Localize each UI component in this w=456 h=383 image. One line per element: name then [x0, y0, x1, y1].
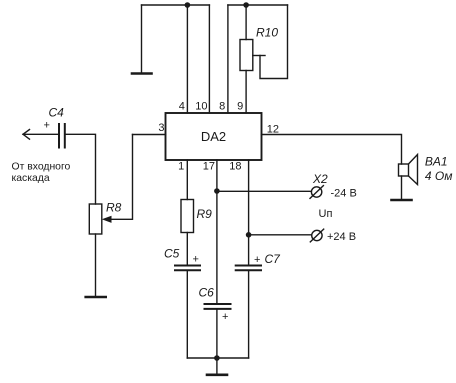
ground GND1	[132, 72, 152, 75]
wire bottom ground stub	[216, 358, 218, 375]
wire R10 top lead	[245, 5, 247, 40]
wire R10 bottom lead to pin 9	[245, 71, 247, 114]
capacitor C6 plates	[205, 303, 231, 305]
svg-text:-24 В: -24 В	[331, 188, 357, 200]
svg-text:C6: C6	[199, 286, 215, 300]
wire top bus 2 horizontal	[228, 4, 288, 6]
svg-text:4: 4	[179, 101, 185, 113]
svg-text:R8: R8	[106, 201, 122, 215]
wire R10 tap	[253, 55, 265, 57]
wire pin 1 lead	[186, 160, 188, 200]
speaker BA1 horn	[409, 155, 418, 185]
svg-text:4 Ом: 4 Ом	[425, 169, 453, 183]
resistor R9	[181, 200, 194, 233]
svg-text:+: +	[193, 254, 199, 266]
capacitor C4 input arrow	[23, 130, 30, 140]
capacitor C4 plates	[58, 124, 60, 148]
wire pin 4 vertical	[186, 5, 188, 113]
wire input to C4	[23, 133, 58, 135]
svg-text:каскада: каскада	[12, 173, 50, 184]
svg-text:10: 10	[195, 101, 207, 113]
node junction pin17 / -24V	[214, 188, 220, 194]
svg-text:1: 1	[178, 161, 184, 173]
capacitor C7 plates	[236, 265, 261, 267]
svg-text:C5: C5	[164, 247, 180, 261]
wire to X2 -24V terminal	[217, 190, 312, 192]
wire C7 to bottom bus	[248, 271, 250, 358]
wire to +24V terminal	[249, 234, 312, 236]
svg-text:DA2: DA2	[201, 129, 226, 144]
svg-text:17: 17	[203, 161, 215, 173]
ground GND3	[392, 199, 412, 202]
terminal X2 -24V circle	[311, 187, 321, 197]
svg-text:8: 8	[219, 101, 225, 113]
wire C4 to R8 top	[66, 134, 96, 204]
terminal X2 -24V slash	[310, 186, 323, 199]
wire pin 10 vertical	[208, 5, 210, 113]
wire pin 12 to speaker	[262, 135, 402, 165]
wire top bus 1 horizontal	[142, 4, 210, 6]
svg-text:18: 18	[229, 161, 241, 173]
svg-text:+: +	[222, 311, 228, 323]
wire C6 to bottom bus	[216, 310, 218, 359]
speaker BA1 box	[399, 164, 409, 176]
ground GND4	[207, 373, 227, 376]
wiper arrowhead R8	[102, 216, 112, 223]
wire speaker to ground	[401, 176, 403, 200]
node junction bottom bus	[214, 355, 220, 361]
op-amp IC DA2	[166, 113, 262, 160]
wire pin 17 lead	[216, 160, 218, 304]
wire drop to ground from top bus 1	[141, 5, 143, 74]
svg-text:R10: R10	[256, 26, 278, 40]
svg-text:3: 3	[158, 122, 164, 134]
svg-text:BA1: BA1	[425, 155, 448, 169]
ground GND2	[86, 296, 106, 299]
svg-text:+: +	[254, 254, 260, 266]
wire R9 to C5	[186, 233, 188, 266]
wire pin 8 vertical	[227, 5, 229, 113]
svg-text:C4: C4	[49, 106, 65, 120]
svg-text:9: 9	[237, 101, 243, 113]
terminal +24V circle	[312, 230, 322, 240]
svg-text:Uп: Uп	[319, 208, 333, 220]
wire pin 18 lead	[248, 160, 250, 265]
wire pin 3	[133, 134, 166, 136]
svg-text:От входного: От входного	[12, 161, 71, 172]
wire bottom bus	[187, 357, 248, 359]
node junction on top bus 1	[185, 2, 191, 8]
svg-text:X2: X2	[312, 172, 328, 186]
svg-text:+: +	[44, 120, 50, 132]
wire R8 wiper arm	[110, 135, 133, 220]
resistor R10	[240, 40, 253, 71]
svg-text:C7: C7	[265, 252, 282, 266]
svg-text:+24 В: +24 В	[327, 231, 356, 243]
wire C5 to bottom bus	[186, 271, 188, 358]
wire R8 bottom lead	[95, 234, 97, 297]
svg-text:12: 12	[267, 124, 279, 136]
svg-text:R9: R9	[197, 207, 213, 221]
wire R10 tap down and right	[260, 5, 288, 79]
node junction pin18 / +24V	[246, 232, 252, 238]
node junction on top bus 2	[243, 2, 249, 8]
capacitor C5 plates	[175, 265, 200, 267]
resistor R8	[89, 204, 102, 234]
terminal +24V slash	[310, 229, 323, 242]
